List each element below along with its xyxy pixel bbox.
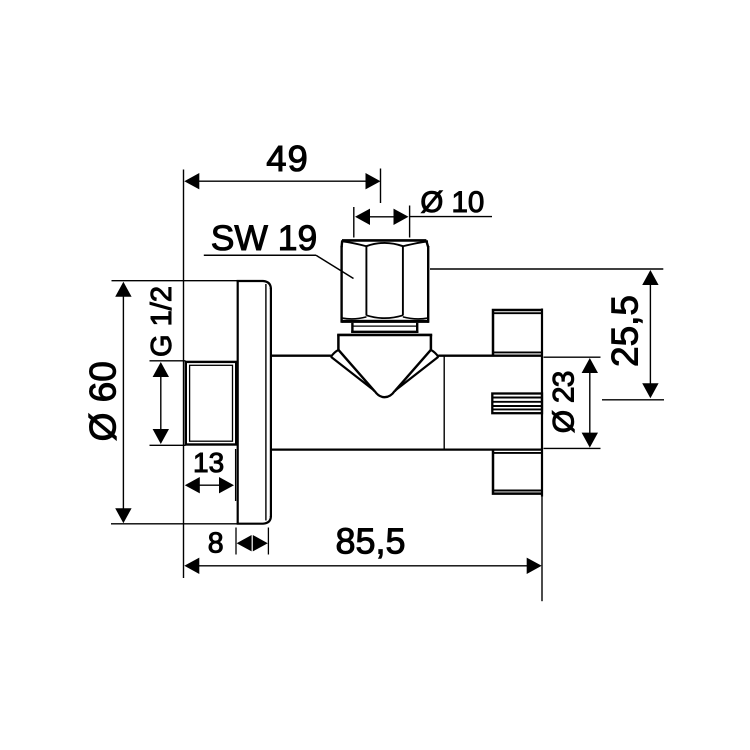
node A: 49 dimension bbox=[184, 138, 380, 203]
node F: diameter 60 dimension bbox=[83, 281, 238, 524]
node G: G 1/2 dimension bbox=[146, 286, 185, 445]
svg-text:8: 8 bbox=[208, 527, 224, 559]
svg-text:Ø 10: Ø 10 bbox=[420, 186, 484, 219]
node H: 13 dimension bbox=[185, 447, 236, 501]
node I: 8 dimension bbox=[208, 527, 269, 559]
svg-text:13: 13 bbox=[193, 447, 224, 478]
node E: diameter 23 dimension bbox=[544, 357, 601, 448]
part: wall plate (rosette) bbox=[237, 281, 271, 524]
svg-text:49: 49 bbox=[266, 138, 309, 179]
node B: diameter 10 dimension bbox=[354, 186, 492, 238]
part: collar under nut bbox=[351, 323, 418, 333]
svg-text:25,5: 25,5 bbox=[605, 295, 646, 367]
part: valve body bbox=[271, 356, 542, 450]
wire: long extension line (wall face) bbox=[183, 170, 185, 579]
part: handle lower bump bbox=[492, 450, 542, 494]
svg-text:G 1/2: G 1/2 bbox=[146, 286, 178, 357]
svg-text:Ø 23: Ø 23 bbox=[548, 371, 581, 433]
part: inlet nipple G 1/2 bbox=[186, 362, 236, 445]
part: knurled band bbox=[492, 394, 542, 414]
node D: 25,5 dimension bbox=[430, 269, 664, 400]
node C: SW 19 label and leader bbox=[204, 218, 354, 279]
svg-text:SW 19: SW 19 bbox=[211, 218, 318, 258]
part: hex nut SW19 bbox=[342, 240, 429, 323]
part: cone (valve seat transition) bbox=[331, 335, 439, 398]
svg-text:Ø 60: Ø 60 bbox=[83, 361, 124, 441]
part: handle upper bump bbox=[492, 310, 542, 356]
node J: 85,5 dimension bbox=[184, 521, 541, 575]
svg-text:85,5: 85,5 bbox=[335, 521, 405, 562]
wire: right edge / extension x=542 bbox=[541, 309, 543, 497]
